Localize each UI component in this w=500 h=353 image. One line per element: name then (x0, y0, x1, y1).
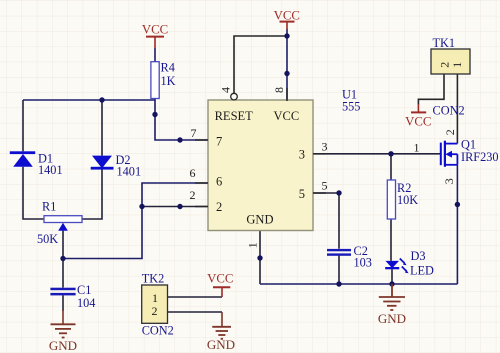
svg-text:6: 6 (190, 166, 196, 180)
svg-text:8: 8 (272, 87, 286, 93)
junction: pin 3 / R2 top (388, 151, 393, 156)
pin 2 stub (195, 206, 208, 208)
wire: Q1 source down to bottom rail (456, 165, 458, 284)
wire: TK2 pin2 to GND (168, 311, 223, 313)
ground below D3 (379, 284, 405, 310)
pin 3 stub (313, 153, 326, 155)
svg-text:5: 5 (322, 178, 328, 192)
svg-text:VCC: VCC (274, 8, 300, 22)
svg-text:50K: 50K (37, 232, 58, 246)
op-amp U1 555 timer body (208, 100, 313, 231)
svg-text:GND: GND (207, 337, 235, 352)
svg-text:TK2: TK2 (142, 271, 165, 285)
ground below TK2 VCC wire (212, 312, 231, 339)
power VCC right of TK2 (207, 272, 233, 297)
transistor Q1 IRF230 (441, 141, 458, 167)
wire: pin 5 right and down to C2 (313, 193, 339, 249)
svg-text:R1: R1 (42, 200, 56, 214)
resistor R4 (151, 62, 159, 99)
wire: pin 3 to Q1 gate (313, 153, 440, 155)
svg-text:104: 104 (77, 296, 95, 310)
wire: D2 top lead (101, 100, 103, 156)
svg-text:RESET: RESET (215, 109, 254, 123)
junction: D2 top rail (99, 97, 104, 102)
svg-text:1: 1 (246, 242, 260, 248)
svg-text:4: 4 (219, 87, 233, 93)
svg-text:TK1: TK1 (433, 36, 456, 50)
wire: R2 top lead (390, 154, 392, 180)
LED D3 (385, 259, 408, 274)
wire: R1 wiper stem to C1 (62, 231, 64, 288)
junction: VCC / pin 4 branch (284, 33, 289, 38)
svg-text:1: 1 (152, 291, 158, 305)
connector TK1 (431, 49, 470, 74)
pin 7 stub (195, 139, 208, 141)
pin 6 stub (195, 182, 208, 184)
svg-text:VCC: VCC (142, 23, 168, 37)
wire: R2 bottom to D3 (390, 219, 392, 261)
capacitor C1 (50, 288, 75, 296)
svg-text:103: 103 (354, 256, 372, 270)
wire: bottom rail (260, 283, 457, 285)
svg-text:R4: R4 (161, 61, 175, 75)
svg-text:1: 1 (450, 62, 464, 68)
junction: on pin 2 wire (177, 204, 182, 209)
junction: on Q1 source wire (455, 202, 460, 207)
capacitor C2 (327, 249, 351, 256)
svg-text:2: 2 (216, 200, 222, 214)
junction: C2 / bottom rail (336, 281, 341, 286)
svg-text:LED: LED (410, 264, 434, 278)
junction: D3 / GND rail (389, 281, 394, 286)
power VCC below TK1 (405, 104, 431, 129)
wire: VCC to R4 top (154, 48, 156, 62)
svg-text:10K: 10K (397, 193, 418, 207)
svg-text:GND: GND (49, 338, 77, 353)
svg-text:7: 7 (191, 126, 197, 140)
wire: C2 bottom to rail (338, 256, 340, 284)
svg-text:CON2: CON2 (433, 104, 465, 118)
svg-text:3: 3 (322, 140, 328, 154)
wire: pin 1 down to bottom rail (259, 231, 261, 285)
junction: on pin 1 wire (257, 255, 262, 260)
wire: R4 bottom down and to pin 7 (155, 99, 208, 141)
resistor R2 (387, 180, 395, 219)
wire: TK2 pin1 to VCC (168, 296, 223, 298)
junction: pin 5 corner (336, 190, 341, 195)
svg-text:3: 3 (299, 148, 305, 162)
diode D2 (91, 156, 114, 170)
junction: R1 wiper / C1 node (60, 256, 65, 261)
pin 4 inversion bubble (231, 93, 238, 100)
svg-text:CON2: CON2 (142, 323, 174, 337)
svg-text:2: 2 (443, 129, 457, 135)
wire: VCC down to pin 8 (286, 29, 288, 101)
wire: D1 top lead (22, 100, 24, 151)
wire: D3 bottom to rail (391, 269, 393, 284)
diode D1 (10, 151, 35, 167)
power VCC above R4 (142, 23, 168, 48)
svg-text:VCC: VCC (207, 272, 233, 286)
junction: below R4 (152, 112, 157, 117)
svg-text:1401: 1401 (117, 165, 142, 179)
pin 8 stub (286, 88, 288, 101)
svg-text:GND: GND (378, 311, 406, 326)
svg-text:5: 5 (299, 187, 305, 201)
svg-text:555: 555 (342, 100, 360, 114)
svg-text:IRF230: IRF230 (461, 150, 499, 164)
junction: on pin 8 wire (284, 71, 289, 76)
svg-text:VCC: VCC (274, 109, 300, 123)
connector TK2 (142, 285, 168, 323)
svg-text:2: 2 (190, 188, 196, 202)
wire: top rail D1/D2/R4 (23, 99, 155, 101)
svg-text:1401: 1401 (38, 163, 63, 177)
junction: on pin 7 wire (177, 137, 182, 142)
junction: pin 2 / pin 6 riser (139, 204, 144, 209)
wire: pin 6 left, down, to R1 wiper node (63, 183, 208, 259)
ground below C1 (51, 310, 76, 338)
wire: D1 bottom to R1 left (23, 167, 44, 219)
svg-text:C1: C1 (77, 283, 91, 297)
svg-text:6: 6 (216, 174, 222, 188)
wire: C1 bottom to GND (62, 295, 64, 311)
pin 5 stub (313, 192, 326, 194)
svg-text:1K: 1K (161, 74, 176, 88)
potentiometer R1 (44, 216, 82, 231)
wire: TK1 pin2 down to VCC (418, 74, 444, 105)
svg-text:3: 3 (442, 178, 456, 184)
wire: TK1 pin1 down to Q1 drain (456, 74, 458, 144)
wire: pin 2 left (142, 206, 208, 208)
svg-text:GND: GND (246, 213, 273, 227)
power VCC above pin 8 (274, 8, 300, 29)
svg-text:2: 2 (152, 304, 158, 318)
wire: D2 bottom to R1 right (82, 169, 102, 219)
svg-text:7: 7 (216, 135, 222, 149)
svg-text:VCC: VCC (405, 115, 431, 129)
wire: pin 4 loop to VCC node (234, 36, 287, 93)
svg-text:1: 1 (414, 140, 420, 154)
svg-text:D3: D3 (411, 249, 426, 263)
